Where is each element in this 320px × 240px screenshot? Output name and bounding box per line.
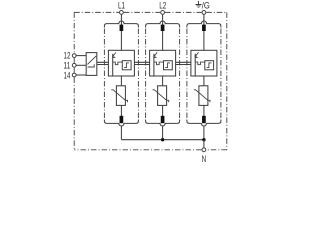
trigger step link module 2 [154,62,164,65]
step waveform glyph module 3 [207,63,212,68]
terminal L1 circle [120,11,124,15]
svg-text:11: 11 [64,61,71,71]
junction node module 2 / bus [161,138,164,141]
terminal G circle [202,11,206,15]
changeover switch arm [87,56,96,65]
terminal 11 circle [72,63,76,67]
protection module 3 outline bottom (solid with plug bump) [187,120,221,127]
varistor MOV module 3 [199,86,208,106]
trigger step link module 3 [195,62,205,65]
wire varistor to bottom disconnector module 3 [203,105,205,116]
trigger circuit box module 3 [205,61,214,70]
step waveform glyph module 2 [165,63,170,68]
protection module 3 outline left leg (dash-dot) [186,29,188,120]
trigger arrow module 3 [195,52,198,57]
enclosure boundary bottom edge (dash-dot) [74,149,227,151]
triggered spark gap box U2 [150,50,176,76]
wire varistor to bottom disconnector module 2 [162,105,164,116]
wire module 3 to N bus [203,126,205,140]
triggered spark gap box U1 [108,50,134,76]
trigger arrow module 2 [154,52,157,57]
enclosure boundary right edge (dash-dot) [226,12,228,149]
protection module 2 outline right leg (dash-dot) [179,29,181,120]
wire disconnector to spark-gap box module 1 [120,31,122,50]
linkage double wire module 2 to module 3 [176,62,191,64]
enclosure boundary left edge (dash-dot) [73,12,75,149]
svg-text:/G: /G [202,0,210,10]
wire terminal L1 down to disconnector [120,14,122,25]
wire module 1 to N bus [120,126,122,140]
spark gap electrode line module 2 [153,54,155,76]
linkage double wire FM to module 1 [97,62,109,64]
junction node module 3 / bus [202,138,205,141]
svg-text:L2: L2 [159,0,166,10]
varistor MOV module 2 [158,86,167,106]
varistor MOV module 1 [116,86,125,106]
thermal disconnector (bottom) module 2 [161,116,165,123]
wire spark-gap box to varistor module 1 [120,76,122,86]
earth ground symbol at terminal PE/G [197,1,199,4]
wire varistor to bottom disconnector module 1 [120,105,122,116]
linkage double wire module 1 to module 2 [134,62,149,64]
protection module 1 outline bottom (solid with plug bump) [104,120,138,127]
thermal disconnector (top) module 2 [161,25,165,31]
thermal disconnector (bottom) module 1 [120,116,124,123]
trigger step link module 1 [113,62,123,65]
protection module 2 outline left leg (dash-dot) [145,29,147,120]
step waveform glyph module 1 [124,63,129,68]
N bus wire [121,139,203,141]
terminal L2 circle [161,11,165,15]
wire disconnector to spark-gap box module 3 [203,31,205,50]
triggered spark gap box U3 [191,50,217,76]
changeover switch contact line [88,64,95,67]
wire spark-gap box to varistor module 3 [203,76,205,86]
terminal N circle [202,148,206,152]
enclosure boundary top edge (dash-dot) [74,11,227,13]
protection module 1 outline top (solid with plug bump) [104,21,138,28]
wire terminal 12 to FM box [76,55,86,57]
thermal disconnector (top) module 3 [202,25,206,31]
wire terminal 14 to FM box [76,74,86,76]
wire module 2 to N bus [162,126,164,140]
thermal disconnector (bottom) module 3 [202,116,206,123]
thermal disconnector (top) module 1 [120,25,124,31]
trigger arrow module 1 [113,52,116,57]
terminal 12 circle [72,54,76,58]
trigger circuit box module 1 [122,61,131,70]
svg-text:L1: L1 [118,0,125,10]
protection module 1 outline right leg (dash-dot) [137,29,139,120]
protection module 2 outline bottom (solid with plug bump) [146,120,180,126]
svg-text:12: 12 [64,51,71,61]
wire terminal G down to disconnector [203,14,205,25]
protection module 1 outline left leg (dash-dot) [103,29,105,120]
svg-text:14: 14 [64,70,71,80]
wire terminal L2 down to disconnector [162,14,164,25]
remote contact FM box [86,53,97,76]
wire disconnector to spark-gap box module 2 [162,31,164,50]
protection module 3 outline right leg (dash-dot) [220,29,222,120]
wire bus down to terminal N [203,140,205,148]
terminal 14 circle [72,73,76,77]
protection module 3 outline top (solid with plug bump) [187,21,221,28]
wire spark-gap box to varistor module 2 [162,76,164,86]
spark gap electrode line module 3 [194,54,196,76]
spark gap electrode line module 1 [112,54,114,76]
protection module 2 outline top (solid with plug bump) [146,21,180,27]
wire terminal 11 to FM box [76,64,86,66]
svg-text:N: N [202,154,207,164]
trigger circuit box module 2 [164,61,173,70]
